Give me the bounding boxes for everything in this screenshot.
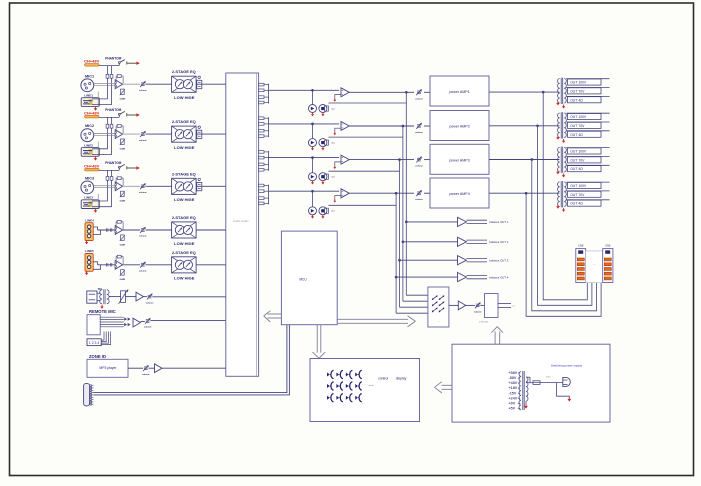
junction row 1 — [312, 89, 314, 91]
power AMP2 block — [430, 111, 489, 141]
op-amp preamp channel 3 — [115, 182, 122, 191]
svg-text:LINE3: LINE3 — [84, 196, 93, 200]
highlight bar channel 2 — [85, 115, 99, 118]
wire preamp to volume channel 1 — [123, 83, 141, 85]
key LED pair row 1 col 4 — [355, 373, 358, 377]
wire remote to matrix — [150, 320, 225, 322]
svg-text:—: — — [593, 263, 596, 266]
svg-text:balance OUT 2: balance OUT 2 — [490, 240, 509, 244]
ground transformer T2 primary — [557, 136, 559, 138]
svg-text:+24V: +24V — [509, 396, 518, 400]
wire EQ to matrix channel 3 — [196, 185, 226, 187]
ground jack channel 3 — [95, 209, 97, 211]
transformer T2 — [560, 112, 562, 138]
connector 1 2 3 4 — [87, 339, 101, 346]
op-amp preamp channel 1 — [115, 80, 122, 89]
wire amp1 to transformer — [489, 91, 559, 93]
svg-text:out: out — [512, 305, 515, 308]
svg-text:CN8: CN8 — [578, 243, 584, 247]
bus vertical row 4 — [395, 192, 397, 194]
terminal OUT 100V T3 — [566, 147, 609, 149]
svg-text:test: test — [331, 142, 335, 145]
svg-text:LOW HIGE: LOW HIGE — [174, 276, 195, 281]
chime source A row 2 — [309, 139, 317, 147]
svg-text:OUT 4Ω: OUT 4Ω — [570, 98, 583, 102]
svg-text:LOW HIGE: LOW HIGE — [174, 145, 195, 150]
svg-text:PHANTOM: PHANTOM — [105, 161, 121, 165]
bus arrow MCU to selector — [337, 318, 408, 320]
op-amp monitor — [449, 304, 458, 306]
ground connector LINE4 — [86, 241, 88, 243]
wires 1234 to remote block — [101, 332, 104, 341]
wire bus to mux row 3 — [400, 306, 428, 308]
terminal OUT 4ohm T2 — [566, 130, 609, 132]
bus vertical row 1 — [405, 91, 407, 93]
svg-text:o sensor: o sensor — [479, 321, 488, 324]
red arrow phantom channel 2 — [136, 113, 139, 116]
wire bus to mux row 1 — [406, 294, 428, 296]
svg-text:GAIN: GAIN — [120, 147, 126, 150]
middle block speaker connector — [586, 251, 603, 283]
svg-text:volume: volume — [139, 90, 147, 92]
wire matrix to op-amp row 3 — [269, 157, 340, 159]
svg-text:power AMP3: power AMP3 — [449, 158, 469, 162]
svg-text:GAIN: GAIN — [120, 243, 126, 246]
op-amp buffer TEL — [125, 296, 136, 298]
wire EQ to matrix channel 1 — [196, 83, 226, 85]
key LED pair row 3 col 1 — [327, 396, 330, 400]
svg-text:OUT 4Ω: OUT 4Ω — [570, 133, 583, 137]
wire bus to balance row 3 — [399, 259, 401, 261]
junction row 3 — [312, 157, 314, 159]
phantom switch SW2 — [99, 116, 119, 118]
wire connector to preamp LINE4 — [93, 227, 97, 230]
ground AC plug — [557, 383, 570, 398]
svg-text:GAIN: GAIN — [120, 98, 126, 101]
transformer T5 TEL — [97, 292, 100, 294]
input connector J3 to matrix — [198, 178, 200, 180]
svg-text:MIC3: MIC3 — [85, 176, 94, 180]
key LED pair row 1 col 1 — [327, 373, 330, 377]
wire mic to preamp channel 2 — [94, 133, 116, 135]
wire bus to balance row 2 — [402, 241, 404, 243]
input connector J1 to matrix — [198, 76, 200, 78]
svg-text:balance OUT 3: balance OUT 3 — [490, 259, 509, 263]
input connector J2 to matrix — [198, 126, 200, 128]
XLR connector MIC1 — [81, 79, 94, 92]
svg-text:MCU: MCU — [299, 278, 307, 282]
phantom feed resistors R3a R3b — [106, 170, 108, 185]
svg-text:volume: volume — [474, 311, 482, 313]
svg-text:Audio matrix: Audio matrix — [233, 219, 249, 223]
wire matrix to op-amp row 4 — [269, 190, 340, 192]
jack connector LINE2 — [81, 148, 99, 157]
bus vertical row 3 — [399, 159, 401, 161]
wire amp3 to speaker connector — [532, 160, 597, 311]
wires remote block out — [100, 316, 124, 318]
phantom switch SW1 — [99, 65, 119, 67]
balance OUT 2 op-amp — [458, 237, 467, 246]
transformer T4 — [560, 181, 562, 207]
balance OUT 1 op-amp — [458, 217, 467, 226]
volume pot channel 3 — [141, 184, 145, 186]
ground power supply transformer — [525, 401, 527, 405]
svg-text:volume: volume — [146, 302, 154, 304]
XLR connector MIC2 — [81, 129, 94, 142]
svg-text:OUT 4Ω: OUT 4Ω — [570, 202, 583, 206]
ground connector LINE5 — [86, 271, 88, 273]
wire phantom to arrow channel 3 — [127, 167, 137, 169]
svg-text:+48V: +48V — [509, 381, 518, 385]
volume pot remote — [140, 321, 145, 323]
wire volume to EQ channel 2 — [146, 133, 172, 135]
svg-text:PHANTOM: PHANTOM — [105, 108, 121, 112]
trim pot TEL — [109, 296, 121, 298]
svg-text:test: test — [331, 210, 335, 213]
svg-text:fuse: fuse — [546, 376, 551, 379]
svg-text:volume: volume — [139, 271, 147, 273]
svg-text:Switching power supply: Switching power supply — [551, 363, 583, 367]
svg-text:LOW HIGE: LOW HIGE — [174, 241, 195, 246]
bus vertical row 2 — [402, 125, 404, 127]
wire TEL to matrix — [152, 296, 226, 298]
bus arrow power supply to display — [442, 384, 453, 386]
terminal OUT 100V T1 — [566, 78, 609, 80]
volume pot row 4 — [417, 191, 421, 193]
key LED pair row 2 col 1 — [327, 384, 330, 388]
junction row 4 — [312, 190, 314, 192]
terminal OUT 4ohm T4 — [566, 199, 609, 201]
wire bus to mux row 2 — [403, 300, 428, 302]
svg-text:OUT 100V: OUT 100V — [570, 81, 587, 85]
svg-text:display: display — [396, 377, 407, 381]
wire chime bus row 2 — [328, 136, 403, 138]
svg-text:MIC1: MIC1 — [85, 74, 94, 78]
svg-text:volume: volume — [415, 166, 423, 168]
svg-text:2-STAGE EQ: 2-STAGE EQ — [172, 119, 196, 124]
op-amp preamp LINE4 — [115, 226, 122, 235]
wire bus to mux row 4 — [396, 312, 428, 314]
wire op-amp to power amp row 3 — [349, 159, 414, 161]
diff receivers remote — [124, 317, 127, 320]
highlight bar channel 1 — [85, 64, 99, 67]
op-amp preamp LINE5 — [115, 260, 122, 269]
svg-text:test: test — [331, 176, 335, 179]
selector block — [428, 287, 449, 327]
XLR connector MIC3 — [81, 181, 94, 194]
bus arrow MCU to display — [316, 325, 318, 353]
wire fuse to plug — [540, 382, 563, 384]
wire EQ to matrix LINE5 — [196, 264, 226, 266]
red arrow phantom channel 1 — [136, 62, 139, 65]
chime source B row 1 — [319, 105, 327, 113]
RCA connector LINE4 — [85, 223, 93, 241]
svg-text:LOW HIGE: LOW HIGE — [174, 197, 195, 202]
volume pot LINE5 — [123, 264, 141, 266]
key LED pair row 3 col 4 — [355, 396, 358, 400]
op-amp preamp channel 2 — [115, 130, 122, 139]
wire op-amp to power amp row 1 — [349, 91, 414, 93]
volume pot LINE4 — [123, 229, 141, 231]
svg-text:LINE5: LINE5 — [85, 249, 94, 253]
chime source B row 2 — [319, 139, 327, 147]
junction amp1 output — [542, 91, 544, 93]
svg-text:power AMP1: power AMP1 — [449, 90, 469, 94]
svg-text:REMOTE MIC: REMOTE MIC — [89, 309, 116, 314]
chime source A row 3 — [309, 173, 317, 181]
wire amp2 to transformer — [489, 125, 559, 127]
wire amp1 to speaker connector — [543, 92, 587, 300]
wire op-amp to power amp row 2 — [349, 125, 414, 127]
power AMP4 block — [430, 178, 489, 208]
svg-text:MIC2: MIC2 — [85, 124, 94, 128]
svg-text:balance OUT 4: balance OUT 4 — [490, 275, 509, 279]
wire matrix to op-amp row 1 — [269, 89, 340, 91]
connector DB9 remote bus — [84, 383, 90, 406]
key LED pair row 3 col 3 — [346, 396, 349, 400]
wire mic to preamp channel 1 — [94, 83, 116, 85]
ground transformer T3 secondary — [563, 173, 565, 175]
wire phantom to arrow channel 1 — [127, 62, 137, 64]
wire MP3 to matrix — [162, 367, 226, 369]
svg-text:LINE2: LINE2 — [84, 144, 93, 148]
svg-text:PHANTOM: PHANTOM — [105, 56, 121, 60]
wire volume to EQ channel 3 — [146, 185, 172, 187]
op-amp summing row 4 — [341, 189, 349, 198]
svg-text:GAIN: GAIN — [120, 200, 126, 203]
svg-text:balance OUT 1: balance OUT 1 — [490, 220, 509, 224]
terminal OUT 4ohm T1 — [566, 95, 609, 97]
balance OUT 4 op-amp — [458, 273, 467, 282]
jack connector LINE1 — [81, 98, 99, 107]
wire amp2 to speaker connector — [538, 126, 592, 305]
terminal OUT 100V T4 — [566, 181, 609, 183]
svg-text:OUT 70V: OUT 70V — [570, 193, 585, 197]
wire phantom to arrow channel 2 — [127, 114, 137, 116]
ground TEL transformer — [101, 305, 103, 307]
volume pot row 2 — [417, 124, 421, 126]
svg-text:volume: volume — [144, 327, 152, 329]
wire EQ to matrix LINE4 — [196, 229, 226, 231]
output connector group CN1 on matrix — [259, 83, 264, 86]
svg-text:volume: volume — [415, 132, 423, 134]
volume pot channel 2 — [141, 132, 145, 134]
svg-text:OUT 70V: OUT 70V — [570, 124, 585, 128]
chime source A row 1 — [309, 105, 317, 113]
terminal OUT 70V T4 — [566, 190, 609, 192]
ground transformer T4 primary — [557, 205, 559, 207]
chime source B row 4 — [319, 207, 327, 215]
volume pot TEL — [143, 296, 147, 298]
svg-text:volume: volume — [139, 236, 147, 238]
svg-text:power AMP4: power AMP4 — [449, 192, 469, 196]
svg-text:LOW HIGE: LOW HIGE — [174, 95, 195, 100]
svg-text:CH+48V: CH+48V — [84, 163, 100, 168]
wire jack to preamp channel 2 — [92, 134, 107, 149]
ground jack channel 2 — [95, 156, 97, 158]
transformer power supply — [522, 371, 524, 410]
svg-text:ZONE ID: ZONE ID — [89, 354, 106, 359]
terminal OUT 70V T2 — [566, 121, 609, 123]
ground transformer T2 secondary — [563, 139, 565, 141]
power AMP3 block — [430, 144, 489, 174]
svg-text:MP3 player: MP3 player — [99, 366, 117, 370]
bus arrow MCU to matrix — [268, 313, 282, 315]
wire DB9 to MCU b — [94, 325, 290, 395]
key LED pair row 3 col 2 — [336, 396, 339, 400]
balance OUT 3 op-amp — [458, 256, 467, 265]
svg-text:power AMP2: power AMP2 — [449, 125, 469, 129]
svg-text:OUT 100V: OUT 100V — [570, 184, 587, 188]
svg-text:+58V: +58V — [509, 371, 518, 375]
ground op-amp row 1 — [335, 95, 341, 99]
svg-text:1 2 3 4: 1 2 3 4 — [89, 341, 99, 345]
op-amp summing row 1 — [341, 88, 349, 97]
svg-text:control: control — [378, 377, 388, 381]
ground transformer T1 secondary — [563, 105, 565, 107]
volume pot row 3 — [417, 157, 421, 159]
svg-text:2-STAGE EQ: 2-STAGE EQ — [172, 171, 196, 176]
svg-text:+18V: +18V — [509, 386, 518, 390]
volume pot monitor — [466, 304, 475, 306]
junction amp4 output — [525, 192, 527, 194]
wire preamp to volume channel 2 — [123, 133, 141, 135]
phantom feed resistors R2a R2b — [106, 117, 108, 133]
svg-text:2-STAGE EQ: 2-STAGE EQ — [172, 215, 196, 220]
svg-text:2-STAGE EQ: 2-STAGE EQ — [172, 250, 196, 255]
key LED pair row 1 col 2 — [336, 373, 339, 377]
fuse — [526, 382, 533, 384]
wire volume to EQ channel 1 — [146, 83, 172, 85]
dashes display — [369, 384, 371, 386]
wire bus to balance row 1 — [405, 221, 407, 223]
svg-text:GAIN: GAIN — [120, 278, 126, 281]
wire connector to preamp LINE5 — [93, 262, 97, 265]
op-amp remote — [133, 318, 140, 327]
junction row 2 — [312, 123, 314, 125]
key LED pair row 1 col 3 — [346, 373, 349, 377]
wire preamp to volume channel 3 — [123, 185, 141, 187]
audio matrix block — [226, 73, 259, 376]
TEL input jack — [87, 291, 97, 303]
monitor output block — [480, 304, 484, 306]
output connector group CN4 on matrix — [259, 184, 264, 187]
ground transformer T1 primary — [557, 101, 559, 103]
svg-text:volume: volume — [415, 98, 423, 100]
volume pot MP3 — [128, 367, 143, 369]
svg-text:OUT 70V: OUT 70V — [570, 158, 585, 162]
ground op-amp row 4 — [335, 196, 341, 200]
svg-text:volume: volume — [139, 192, 147, 194]
phantom feed resistors R1a R1b — [106, 66, 108, 84]
wire mic to preamp channel 3 — [94, 185, 116, 187]
ground transformer T4 secondary — [563, 208, 565, 210]
phantom switch SW3 — [99, 169, 119, 171]
wire jack to preamp channel 3 — [92, 186, 107, 201]
key LED pair row 2 col 2 — [336, 384, 339, 388]
wire EQ to matrix channel 2 — [196, 133, 226, 135]
svg-text:OUT 70V: OUT 70V — [570, 90, 585, 94]
svg-text:-15V: -15V — [509, 391, 517, 395]
output connector group CN2 on matrix — [259, 117, 264, 120]
highlight bar channel 3 — [85, 168, 99, 171]
wire matrix to op-amp row 2 — [269, 123, 340, 125]
svg-text:CH+48V: CH+48V — [84, 110, 100, 115]
power AMP1 block — [430, 76, 489, 106]
wire chime bus row 3 — [328, 170, 399, 172]
svg-text:2-STAGE EQ: 2-STAGE EQ — [172, 69, 196, 74]
chime source B row 3 — [319, 173, 327, 181]
wire amp4 to speaker connector — [526, 193, 601, 316]
volume pot channel 1 — [141, 82, 145, 84]
svg-text:+9V: +9V — [509, 401, 516, 405]
svg-text:CH+48V: CH+48V — [84, 59, 100, 64]
key LED pair row 2 col 4 — [355, 384, 358, 388]
svg-text:LINE4: LINE4 — [85, 218, 94, 222]
terminal OUT 4ohm T3 — [566, 164, 609, 166]
control display block — [310, 359, 420, 422]
red arrow phantom channel 3 — [136, 166, 139, 169]
REMOTE MIC block — [87, 315, 100, 335]
svg-text:LINE1: LINE1 — [84, 94, 93, 98]
junction amp3 output — [531, 159, 533, 161]
op-amp summing row 3 — [341, 155, 349, 164]
svg-text:+5V: +5V — [509, 407, 516, 411]
svg-text:-58V: -58V — [509, 376, 517, 380]
transformer T3 — [560, 147, 562, 173]
chime source A row 4 — [309, 207, 317, 215]
ground jack channel 1 — [95, 106, 97, 108]
junction amp2 output — [537, 125, 539, 127]
key LED pair row 2 col 3 — [346, 384, 349, 388]
wire bus to balance row 4 — [395, 276, 397, 278]
ground op-amp row 3 — [335, 162, 341, 166]
output connector group CN3 on matrix — [259, 151, 264, 154]
wire volume to EQ LINE5 — [146, 264, 172, 266]
AC plug — [563, 377, 571, 386]
svg-text:OUT 4Ω: OUT 4Ω — [570, 167, 583, 171]
MP3 player block — [87, 359, 128, 377]
svg-text:CN9: CN9 — [605, 243, 611, 247]
terminal OUT 70V T1 — [566, 87, 609, 89]
terminal OUT 70V T3 — [566, 156, 609, 158]
svg-text:OUT 100V: OUT 100V — [570, 150, 587, 154]
wire DB9 to MCU a — [94, 325, 287, 393]
op-amp summing row 2 — [341, 122, 349, 131]
wire chime bus row 4 — [328, 204, 396, 206]
switching power supply block — [452, 344, 610, 422]
MCU block — [281, 231, 337, 325]
op-amp MP3 — [149, 367, 155, 369]
wire jack to preamp channel 1 — [92, 84, 107, 99]
wire amp4 to transformer — [489, 192, 559, 194]
transformer T1 — [560, 78, 562, 104]
wire op-amp to power amp row 4 — [349, 192, 414, 194]
wire chime bus row 1 — [328, 102, 406, 104]
wire amp3 to transformer — [489, 159, 559, 161]
terminal OUT 100V T2 — [566, 112, 609, 114]
ground transformer T3 primary — [557, 170, 559, 172]
svg-text:volume: volume — [415, 199, 423, 201]
RCA connector LINE5 — [85, 254, 93, 272]
svg-text:OUT 100V: OUT 100V — [570, 115, 587, 119]
ground op-amp row 2 — [335, 128, 341, 132]
bus arrow power supply up — [494, 332, 496, 345]
volume pot row 1 — [417, 90, 421, 92]
svg-text:test: test — [331, 107, 335, 110]
jack connector LINE3 — [81, 200, 99, 209]
svg-text:volume: volume — [142, 374, 150, 376]
